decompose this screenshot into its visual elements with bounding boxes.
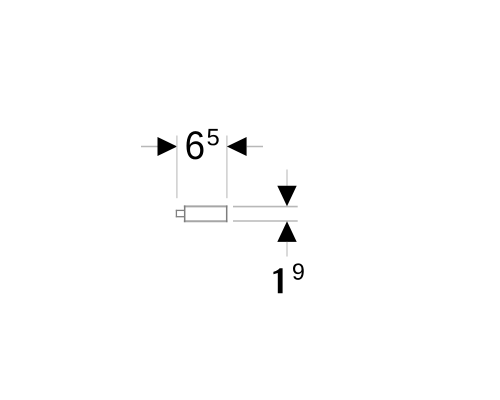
part: tab bottom edge [176, 216, 185, 218]
label: dimension 6 [186, 131, 203, 159]
wire: upper tail of vertical dimension [286, 170, 288, 186]
part: tab top edge [176, 209, 185, 211]
label: superscript 5 [207, 129, 218, 146]
wire: left extension line [176, 136, 178, 199]
part: tab left edge [175, 210, 177, 218]
part: main rectangle body (white fill) [184, 205, 228, 222]
part: small tab on left (white fill) [176, 210, 185, 218]
part: body left edge [184, 205, 186, 222]
wire: bottom extension line of vertical dimension [233, 220, 298, 222]
part: body bottom edge [184, 220, 228, 222]
label: superscript 9 [293, 263, 304, 279]
label: dimension 1 (drawn, sans foot serif) [273, 268, 282, 293]
wire: top extension line of vertical dimension [233, 206, 298, 208]
wire: lower tail of vertical dimension [286, 242, 288, 257]
wire: right extension line [226, 136, 228, 199]
part: body right edge [226, 205, 228, 222]
part: body top edge [184, 205, 228, 207]
wire: left tail of horizontal dimension [141, 146, 158, 148]
arrow: right arrowhead pointing left [227, 137, 247, 156]
arrow: top arrowhead pointing down [277, 186, 296, 207]
arrow: left arrowhead pointing right [158, 137, 178, 156]
wire: right tail of horizontal dimension [247, 146, 263, 148]
arrow: bottom arrowhead pointing up [277, 221, 296, 242]
